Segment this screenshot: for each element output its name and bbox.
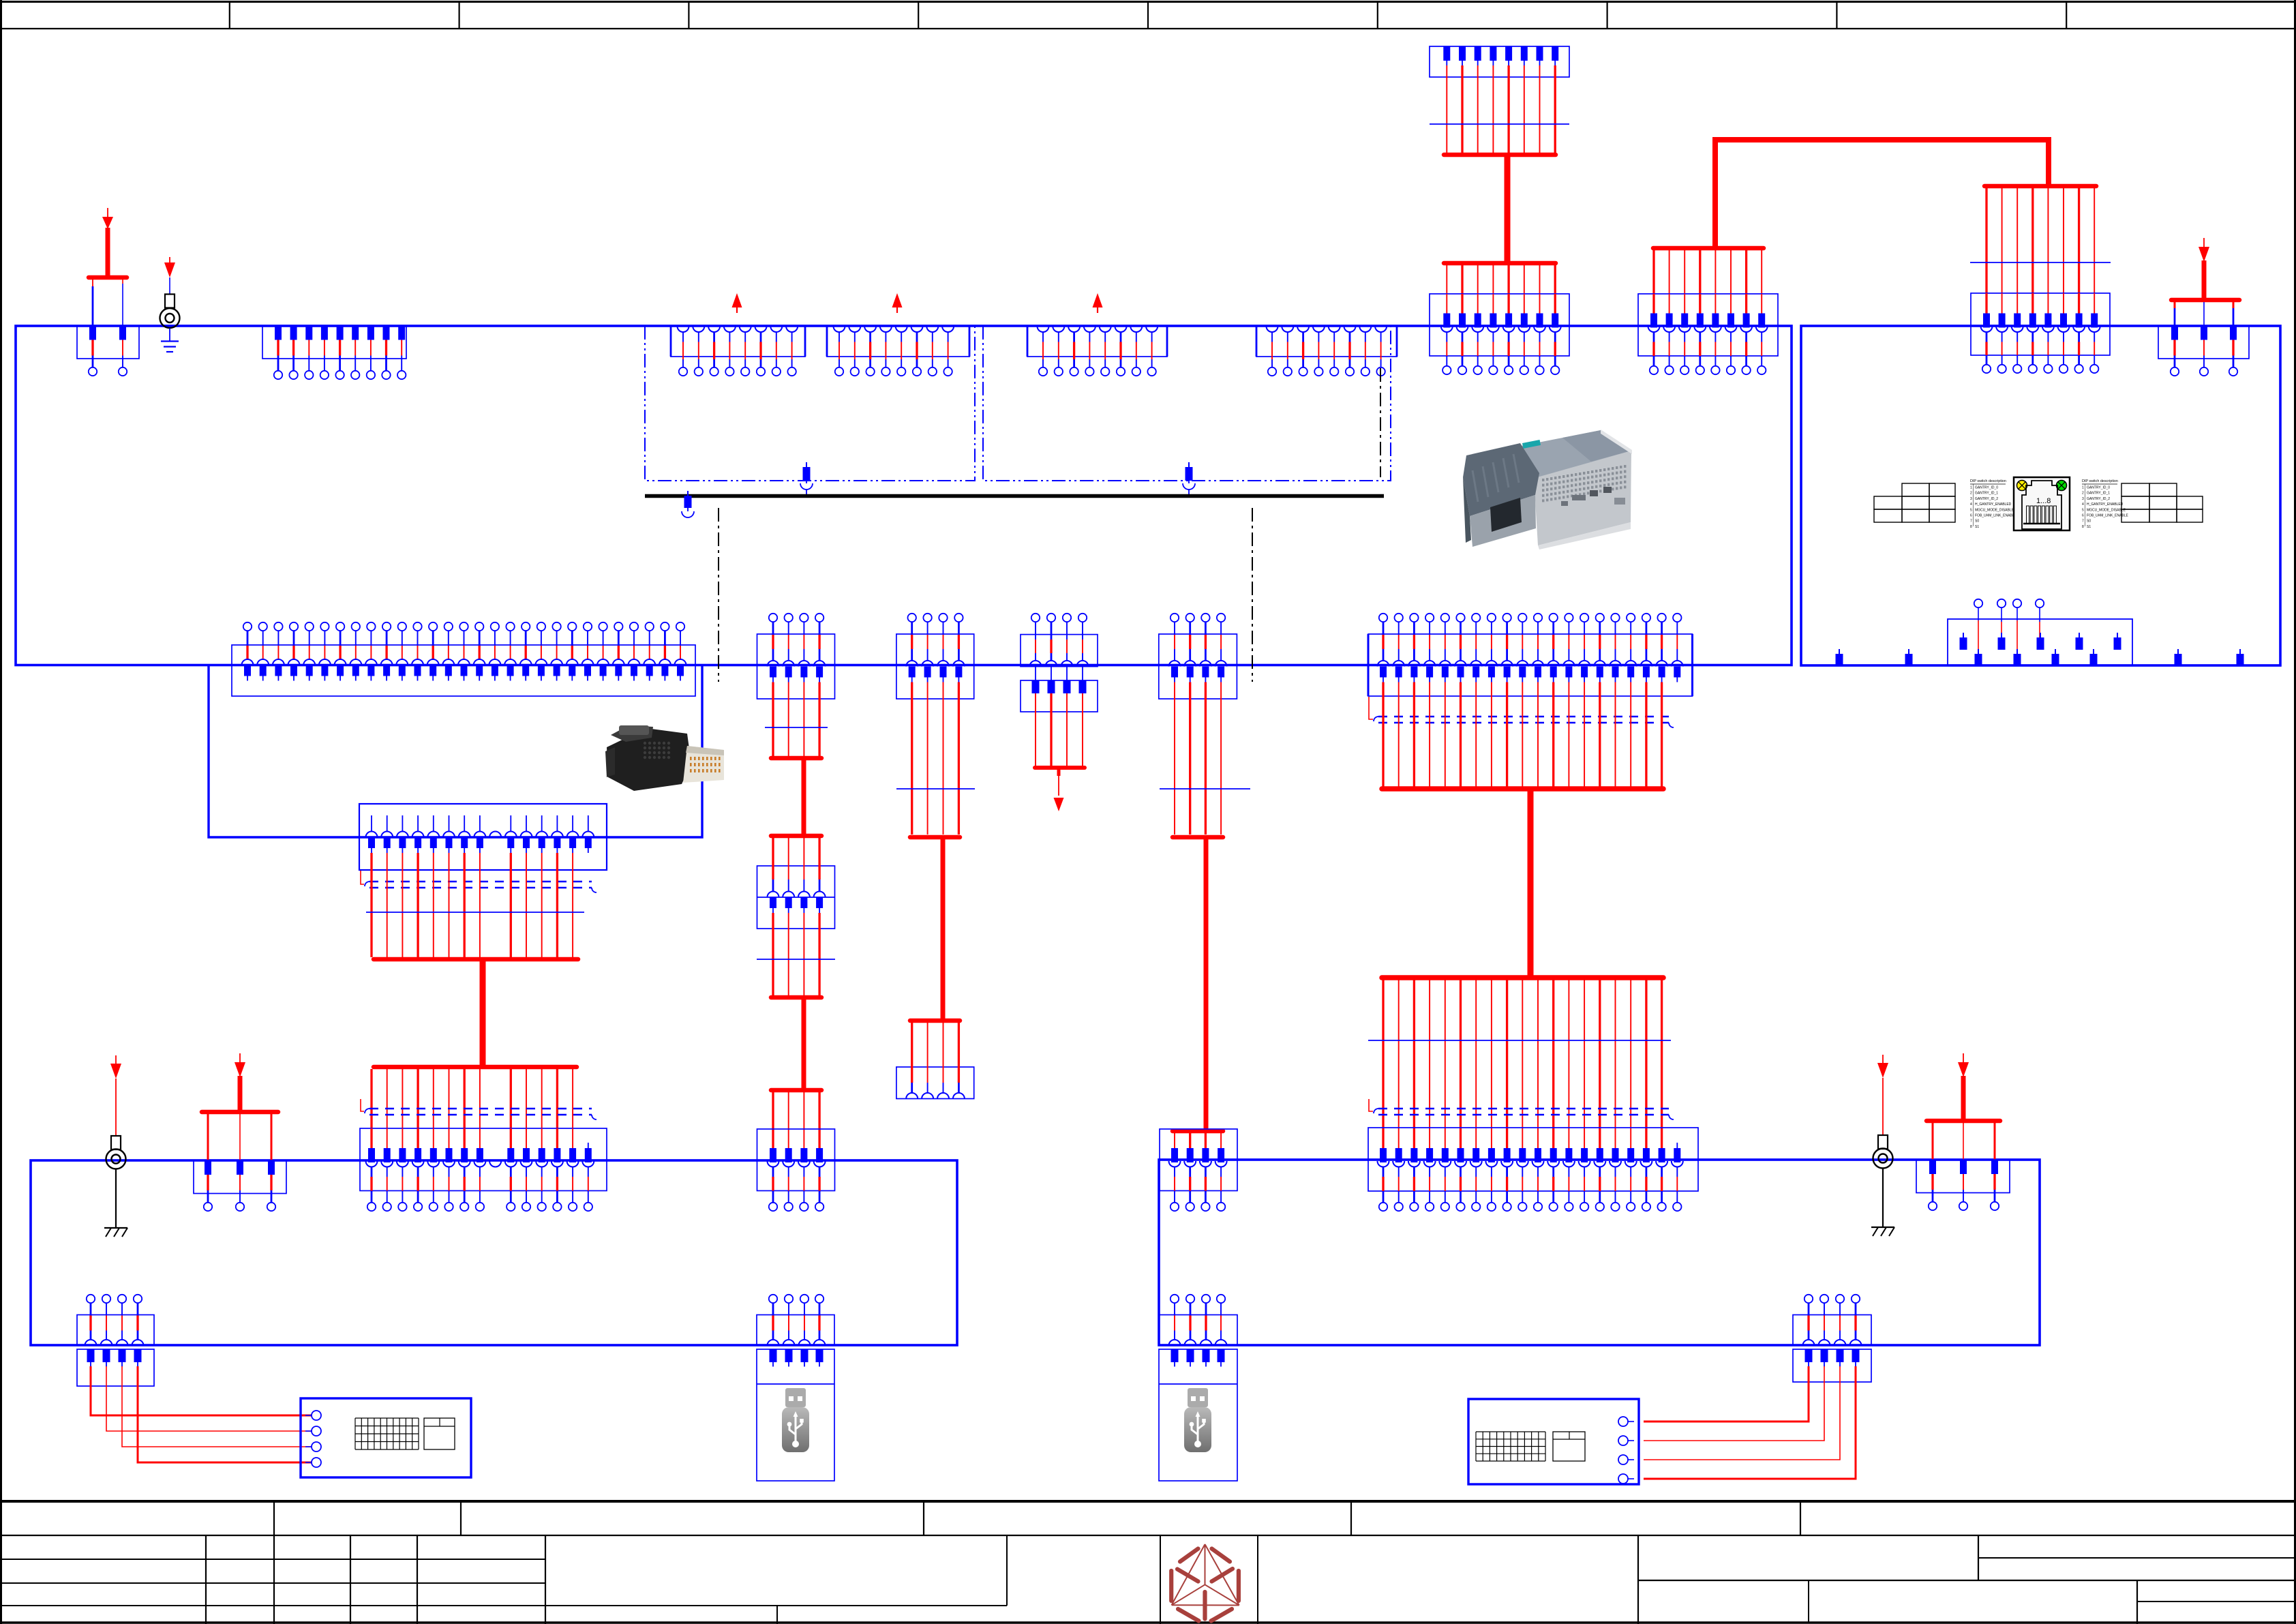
svg-text:2: 2 [1970, 492, 1972, 496]
power feed arrow P3 [235, 1053, 245, 1111]
svg-text:2: 2 [2082, 492, 2084, 496]
svg-text:GANTRY_ID_2: GANTRY_ID_2 [2087, 497, 2110, 501]
svg-text:1: 1 [1970, 486, 1972, 490]
svg-text:S0: S0 [2087, 520, 2091, 524]
connector X3 (15-pin) [360, 1128, 607, 1211]
connector X10 (2-pin) [77, 326, 139, 376]
connector C4 bottom (4-pin) [1160, 1129, 1237, 1211]
connector C3 socket (4-pin female on bus) [1021, 614, 1098, 680]
power bus bar X4 [202, 1110, 278, 1115]
cable mark W1 [1368, 1040, 1671, 1041]
svg-text:6: 6 [1970, 514, 1972, 518]
wire DVI loop left [209, 665, 359, 838]
power cable C4 [1204, 837, 1209, 1131]
wires K2 to keyboard [1644, 1366, 1856, 1479]
power cable C1 a [802, 758, 806, 836]
left thick edge W1 [1368, 634, 1370, 696]
power cable W1 [1528, 789, 1534, 978]
svg-text:H_GANTRY_ENABLED: H_GANTRY_ENABLED [2087, 502, 2124, 507]
svg-text:FOB_UHM_LINK_ENABLE: FOB_UHM_LINK_ENABLE [1975, 514, 2017, 518]
svg-text:8: 8 [2082, 525, 2084, 529]
power cable C1 b [802, 997, 806, 1090]
connector X30 (3-pin) [2158, 326, 2249, 376]
svg-text:GANTRY_ID_0: GANTRY_ID_0 [2087, 486, 2110, 490]
wires C1 to bottom connector [773, 1092, 819, 1148]
power bus bar T1 upper [1444, 153, 1556, 157]
wires W1 lower [1383, 980, 1662, 1148]
power bus bar C4 b [1173, 1129, 1223, 1134]
cabinet boundary dash-dot short [1380, 368, 1381, 477]
connector U2 mating pair (USB right) [1159, 1295, 1237, 1481]
connector C1 mating pair mid [757, 838, 835, 929]
upper-left bus enclosure box [16, 326, 1792, 665]
cable mark X2 [366, 912, 584, 913]
svg-text:H_GANTRY_ENABLED: H_GANTRY_ENABLED [1975, 502, 2012, 507]
power arrow down C3 [1054, 768, 1064, 811]
floating pin b [1998, 633, 2006, 650]
floating pin d [2076, 633, 2083, 650]
DIP switch description text right [2082, 479, 2129, 529]
connector F3 (8-pin) [1027, 326, 1167, 376]
cable shield X3 [361, 1099, 596, 1119]
power bus bar C3 [1035, 766, 1085, 770]
cable mark C2 [896, 788, 975, 790]
connector T2 mating pair [1638, 294, 1778, 374]
svg-text:S0: S0 [1975, 520, 1979, 524]
terminal circle R3 [2013, 599, 2021, 607]
cable mark C1 b [757, 959, 835, 960]
power bus bar C1 c [771, 995, 821, 1000]
connector F2 (8-pin) [827, 326, 969, 376]
svg-text:MGCU_MODE_DISABLE: MGCU_MODE_DISABLE [1975, 508, 2014, 512]
connector C3 pin header (4-pin) [1021, 680, 1098, 766]
power bus bar X2 upper [374, 957, 578, 962]
svg-text:DIP switch description: DIP switch description [1970, 479, 2006, 483]
svg-text:GANTRY_ID_1: GANTRY_ID_1 [2087, 492, 2110, 496]
svg-text:GANTRY_ID_1: GANTRY_ID_1 [1975, 492, 1998, 496]
wires C4 down [1175, 699, 1221, 834]
wires bus to X3 [372, 1069, 573, 1128]
power bus bar T2 [1653, 246, 1764, 251]
terminal pin on edge b [2014, 649, 2021, 665]
power bus bar C1 d [771, 1088, 821, 1093]
DVI-VGA adapter photo [605, 725, 724, 791]
cable clamp on shield box A [800, 462, 813, 495]
cabinet boundary dash-dot right [1252, 508, 1253, 682]
equipotential rail (black) [645, 494, 1384, 498]
floating pin e [2114, 633, 2121, 650]
RJ45 jack graphic [2014, 477, 2070, 530]
power bus bar W1 a [1382, 786, 1663, 792]
power bus bar W1 b [1382, 975, 1663, 980]
connector C4 top (4-pin) [1159, 614, 1237, 699]
connector C2 top (4-pin) [896, 614, 974, 699]
wires K1 to keyboard [91, 1366, 312, 1462]
wires right column bus to connector [1987, 188, 2094, 294]
power bus bar X5 [1927, 1119, 2000, 1124]
terminal strip sub-box right [1948, 619, 2132, 665]
connector C2 socket box (4-pin) [896, 1023, 974, 1099]
svg-text:DIP switch description: DIP switch description [2082, 479, 2118, 483]
edge pin right [2175, 649, 2182, 665]
power cable T1 [1505, 155, 1511, 263]
cable shield W1 upper [1369, 697, 1674, 727]
DIP switch table right [2121, 483, 2203, 522]
wires bus to X4 [208, 1114, 271, 1160]
ground eyelet bottom-left [104, 1055, 127, 1237]
power feed arrow P4 [1958, 1053, 1969, 1119]
svg-text:5: 5 [1970, 508, 1972, 512]
connector K2 mating pair (keyboard right) [1793, 1295, 1871, 1382]
DIP switch description text left [1970, 479, 2017, 529]
cable mark C4 [1160, 788, 1250, 790]
edge pin far-right [2237, 649, 2244, 665]
cable mark C1 [765, 727, 828, 728]
svg-text:7: 7 [1970, 520, 1972, 524]
lower-left bus enclosure box [31, 1160, 957, 1345]
terminal circle R4 [2036, 599, 2044, 607]
svg-text:FOB_UHM_LINK_ENABLE: FOB_UHM_LINK_ENABLE [2087, 514, 2129, 518]
lower-right bus enclosure box [1159, 1160, 2040, 1345]
cable mark right column [1970, 262, 2111, 263]
cable shield X2 [361, 871, 596, 892]
power arrow above connector F1 [732, 293, 742, 307]
connector T1 header (8-pin) [1430, 46, 1569, 154]
power bus bar C2 b [910, 1019, 960, 1023]
wires C1 down [773, 699, 819, 756]
power bus bar T1 lower [1444, 261, 1556, 266]
svg-text:GANTRY_ID_2: GANTRY_ID_2 [1975, 497, 1998, 501]
Siemens industrial PC photo [1463, 430, 1632, 550]
connector X2 upper (15-pin) [359, 804, 607, 870]
terminal pin on edge a [1975, 649, 1982, 665]
connector C1 bottom (4-pin) [757, 1129, 835, 1211]
EMC shield dashed box B [983, 326, 1391, 481]
cabinet boundary dash-dot left [718, 508, 719, 682]
power bus bar for X10 [89, 275, 127, 280]
power bus bar C1 a [771, 756, 821, 761]
connector F1 (8-pin) [671, 326, 805, 376]
wires X2 to bus [372, 870, 573, 957]
svg-text:6: 6 [2082, 514, 2084, 518]
svg-text:3: 3 [2082, 497, 2084, 501]
svg-text:1: 1 [2082, 486, 2084, 490]
cable clamp on shield box B [1183, 462, 1195, 495]
USB stick icon right [1159, 1383, 1237, 1385]
connector X5 (3-pin) [1916, 1160, 2010, 1210]
connector U1 mating pair (USB left) [757, 1295, 834, 1481]
title block separator line [0, 1500, 2296, 1503]
svg-text:S1: S1 [2087, 525, 2091, 529]
cable mark T1 [1430, 123, 1569, 125]
DIP switch table left [1874, 483, 1955, 522]
terminal pin on edge d [2090, 649, 2098, 665]
power feed arrow P1 [102, 208, 113, 275]
connector R1 mating pair (8-pin) [1971, 293, 2110, 373]
power bus bar C1 b [771, 834, 821, 839]
wire DVI loop right [607, 665, 702, 838]
wires C4 to bottom connector [1175, 1133, 1221, 1148]
wires T2 bus to connector [1654, 250, 1762, 294]
terminal circle R1 [1974, 599, 1982, 607]
connector T1 mating pair [1430, 294, 1569, 374]
connector W1 top (20-pin) [1368, 614, 1693, 696]
wires C2 down [912, 699, 959, 834]
cable shield W1 lower [1369, 1099, 1674, 1119]
svg-text:5: 5 [2082, 508, 2084, 512]
upper-right bus enclosure box [1801, 326, 2280, 665]
power bus bar X2 lower [374, 1065, 577, 1070]
USB stick icon left [757, 1383, 834, 1385]
svg-text:3: 3 [1970, 497, 1972, 501]
power bus bar C2 a [910, 835, 960, 840]
connector W2 bottom (20-pin) [1368, 1128, 1698, 1211]
power cable X2 [480, 959, 486, 1067]
svg-text:S1: S1 [1975, 525, 1979, 529]
ground eyelet bottom-right [1871, 1055, 1894, 1236]
wires W1 to bus [1383, 696, 1662, 787]
svg-text:4: 4 [2082, 502, 2084, 507]
keyboard display unit left [301, 1398, 471, 1477]
svg-text:MGCU_MODE_DISABLE: MGCU_MODE_DISABLE [2087, 508, 2126, 512]
floating pin a [1960, 633, 1967, 650]
wires C1 mid down [773, 929, 819, 995]
connector X11 (9-pin) [262, 326, 406, 380]
connector X4 (3-pin) [194, 1160, 286, 1211]
frame zone ticks top [230, 1, 2066, 29]
wires bus to X30 [2175, 302, 2233, 325]
edge pin left [1905, 649, 1913, 665]
earth terminal and PE symbol [160, 257, 180, 352]
company logo (hexagon icosahedron) [1171, 1544, 1239, 1621]
svg-text:4: 4 [1970, 502, 1972, 507]
connector F4 (8-pin) [1256, 326, 1397, 376]
wires bus to X10 [93, 280, 123, 325]
power feed arrow P2 [2199, 238, 2209, 299]
svg-text:8: 8 [1970, 525, 1972, 529]
svg-text:7: 7 [2082, 520, 2084, 524]
keyboard display unit right [1468, 1399, 1639, 1484]
floating pin c [2037, 633, 2044, 650]
connector C1 top (4-pin) [757, 614, 835, 699]
connector X1 (29-pin backplane) [232, 622, 695, 696]
power cable C2 [941, 837, 946, 1021]
wires T1 bus to connector [1447, 265, 1555, 294]
power arrow above connector F3 [1093, 293, 1103, 307]
power arrow above connector F2 [892, 293, 903, 307]
power bus bar right column [1984, 184, 2096, 189]
title block grid [0, 1501, 2296, 1624]
edge pin far-left [1836, 649, 1843, 665]
terminal circle R2 [1997, 599, 2006, 607]
wires bus to X5 [1933, 1123, 1995, 1160]
EMC shield dashed box A [645, 326, 975, 481]
svg-text:GANTRY_ID_0: GANTRY_ID_0 [1975, 486, 1998, 490]
power trunk cable (top) [1715, 140, 2049, 247]
power bus bar X30 [2171, 298, 2239, 303]
cable clamp on rail [682, 491, 694, 517]
terminal pin on edge c [2052, 649, 2059, 665]
power bus bar C4 a [1173, 835, 1223, 840]
svg-text:1...8: 1...8 [2036, 497, 2051, 505]
connector K1 mating pair (keyboard left) [77, 1295, 154, 1386]
